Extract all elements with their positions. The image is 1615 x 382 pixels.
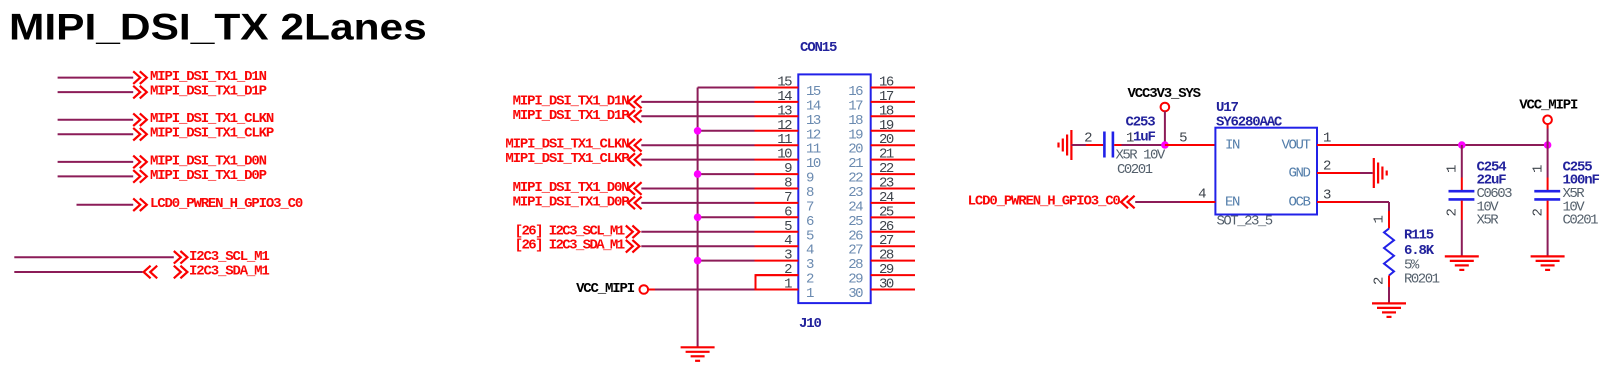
connector left pin 12 stub (755, 130, 799, 132)
pin number 6 (inside) (806, 214, 814, 230)
net label [26] I2C3_SCL_M1 at connector pin 5 (515, 223, 640, 239)
pin number 4 (inside) (806, 243, 814, 259)
C254 attribute X5R (1477, 213, 1500, 229)
R115 value 6.8K (1404, 243, 1435, 259)
pin number 17 (inside) (848, 98, 863, 114)
U17 OCB pin 3 stub and wire to R115 (1317, 202, 1389, 211)
pin number 11 (outside) (777, 132, 792, 148)
wire to port MIPI_DSI_TX1_D0N (58, 161, 134, 163)
pin number 15 (inside) (806, 84, 821, 100)
connector right pin 23 stub (871, 188, 915, 190)
svg-text:C0201: C0201 (1117, 162, 1153, 178)
svg-text:R115: R115 (1404, 228, 1434, 244)
svg-text:30: 30 (848, 286, 863, 302)
svg-text:2: 2 (1084, 131, 1092, 147)
ground symbol at U17 GND (1374, 158, 1387, 188)
pin number 17 (outside) (879, 89, 894, 105)
net label MIPI_DSI_TX1_CLKP at connector pin 10 (505, 151, 641, 167)
wire branch to pin 2 (756, 275, 799, 289)
pin number 7 (inside) (806, 199, 814, 215)
pin number 1 (inside) (806, 286, 814, 302)
pin number 2 of U17 (1323, 159, 1331, 175)
svg-text:I2C3_SDA_M1: I2C3_SDA_M1 (189, 264, 269, 280)
U17 GND pin 2 stub (1317, 172, 1373, 174)
pin number 13 (inside) (806, 113, 821, 129)
connector right pin 27 stub (871, 245, 915, 247)
op-amp U17 body SY6280AAC (1215, 128, 1317, 215)
wire to port I2C3_SDA_M1 (14, 271, 142, 273)
U17 pin name VOUT (1281, 138, 1310, 154)
pin number 28 (inside) (848, 257, 863, 273)
wire MIPI_DSI_TX1_D1P to pin 13 (641, 115, 754, 117)
connector right pin 20 stub (871, 144, 915, 146)
svg-text:2: 2 (1531, 209, 1547, 217)
connector left pin 6 stub (755, 216, 799, 218)
ground bus branch wire to pin 9 (698, 173, 755, 175)
pin number 6 (outside) (784, 204, 792, 220)
svg-text:1: 1 (1372, 216, 1388, 224)
wire node to U17 IN pin 5 (1165, 144, 1216, 146)
wire C254 to ground (1461, 201, 1463, 256)
capacitor C253 (1104, 132, 1113, 158)
svg-text:13: 13 (806, 113, 821, 129)
pin number 12 (inside) (806, 127, 821, 143)
svg-text:2: 2 (1372, 277, 1388, 285)
pin number 26 (outside) (879, 219, 894, 235)
wire C253 pin 1 to node (1114, 144, 1165, 146)
svg-text:I2C3_SCL_M1: I2C3_SCL_M1 (189, 249, 269, 265)
connector left pin 4 stub (755, 245, 799, 247)
ground bus branch wire to pin 15 (698, 87, 755, 89)
pin number 3 (outside) (784, 248, 792, 264)
pin number 30 (inside) (848, 286, 863, 302)
junction at ground bus pin 6 (694, 214, 702, 222)
pin number 4 of U17 (1198, 187, 1206, 203)
pin number 7 (outside) (784, 190, 792, 206)
U17 pin name IN (1225, 138, 1240, 154)
title MIPI_DSI_TX 2Lanes (9, 7, 427, 48)
C253 attributes X5R 10V (1116, 148, 1166, 164)
ground symbol left of C253 (1059, 130, 1072, 160)
connector right pin 26 stub (871, 231, 915, 233)
svg-text:MIPI_DSI_TX1_CLKP: MIPI_DSI_TX1_CLKP (505, 151, 629, 167)
pin number 25 (outside) (879, 204, 894, 220)
U17 pin name OCB (1288, 195, 1310, 211)
power symbol VCC_MIPI (middle) (576, 281, 648, 297)
svg-text:MIPI_DSI_TX1_D1P: MIPI_DSI_TX1_D1P (150, 84, 267, 100)
pin number 2 of R115 (1372, 277, 1388, 285)
wire to port MIPI_DSI_TX1_D1N (58, 77, 134, 79)
wire C255 to ground (1547, 201, 1549, 256)
connector reference designator J10 (799, 316, 821, 332)
svg-text:MIPI_DSI_TX1_D0P: MIPI_DSI_TX1_D0P (513, 194, 630, 210)
pin number 24 (outside) (879, 190, 894, 206)
svg-text:R0201: R0201 (1404, 272, 1440, 288)
pin number 14 (outside) (777, 89, 792, 105)
capacitor C255 (1534, 191, 1560, 199)
svg-text:2: 2 (806, 272, 814, 288)
pin number 11 (inside) (806, 142, 821, 158)
pin number 27 (outside) (879, 233, 894, 249)
wire to port I2C3_SCL_M1 (14, 256, 174, 258)
wire [26] I2C3_SDA_M1 to pin 4 (641, 245, 754, 247)
svg-text:MIPI_DSI_TX1_D0P: MIPI_DSI_TX1_D0P (150, 168, 267, 184)
ground bus vertical wire (697, 88, 699, 347)
pin number 22 (outside) (879, 161, 894, 177)
svg-text:6: 6 (784, 204, 792, 220)
pin number 2 of C254 (1445, 209, 1461, 217)
svg-text:VCC_MIPI: VCC_MIPI (1519, 97, 1578, 113)
pin number 2 (inside) (806, 272, 814, 288)
pin number 3 (inside) (806, 257, 814, 273)
port chevron and net label MIPI_DSI_TX1_D1P (133, 84, 266, 100)
svg-text:10: 10 (777, 147, 792, 163)
pin number 3 of U17 (1323, 188, 1331, 204)
connector left pin 15 stub (755, 87, 799, 89)
svg-text:VCC3V3_SYS: VCC3V3_SYS (1128, 86, 1201, 102)
pin number 30 (outside) (879, 277, 894, 293)
connector left pin 14 stub (755, 101, 799, 103)
svg-text:MIPI_DSI_TX1_CLKP: MIPI_DSI_TX1_CLKP (150, 126, 274, 142)
wire MIPI_DSI_TX1_D1N to pin 14 (641, 101, 754, 103)
pin number 9 (outside) (784, 161, 792, 177)
pin number 23 (outside) (879, 176, 894, 192)
svg-text:7: 7 (784, 190, 792, 206)
connector right pin 21 stub (871, 159, 915, 161)
svg-text:3: 3 (784, 248, 792, 264)
port chevron and net label MIPI_DSI_TX1_CLKN (133, 111, 274, 127)
pin number 18 (outside) (879, 103, 894, 119)
wire [26] I2C3_SCL_M1 to pin 5 (641, 231, 754, 233)
C253 attribute C0201 (1117, 162, 1153, 178)
svg-text:6: 6 (806, 214, 814, 230)
resistor R115 (1384, 211, 1394, 287)
C254 attribute 10V (1477, 199, 1500, 215)
svg-text:1: 1 (784, 277, 792, 293)
svg-text:VOUT: VOUT (1281, 138, 1310, 154)
svg-text:U17: U17 (1216, 100, 1238, 116)
svg-text:15: 15 (806, 84, 821, 100)
connector right pin 18 stub (871, 115, 915, 117)
svg-text:MIPI_DSI_TX1_D1P: MIPI_DSI_TX1_D1P (513, 108, 630, 124)
connector right pin 24 stub (871, 202, 915, 204)
svg-text:SY6280AAC: SY6280AAC (1216, 115, 1283, 131)
pin number 26 (inside) (848, 228, 863, 244)
svg-text:4: 4 (806, 243, 814, 259)
wire MIPI_DSI_TX1_CLKN to pin 11 (641, 144, 754, 146)
svg-text:IN: IN (1225, 138, 1240, 154)
R115 reference designator (1404, 228, 1434, 244)
pin number 1 (outside) (784, 277, 792, 293)
C255 attribute C0201 (1563, 213, 1599, 229)
pin number 9 (inside) (806, 171, 814, 187)
connector left pin 2 stub (755, 274, 799, 276)
pin number 28 (outside) (879, 248, 894, 264)
pin number 5 of U17 (1179, 131, 1187, 147)
svg-text:12: 12 (806, 127, 821, 143)
junction at IN node (1161, 141, 1169, 149)
connector right pin 19 stub (871, 130, 915, 132)
svg-text:VCC_MIPI: VCC_MIPI (576, 281, 635, 297)
svg-text:15: 15 (777, 75, 792, 91)
svg-text:4: 4 (784, 233, 792, 249)
svg-text:1: 1 (1531, 165, 1547, 173)
C255 value 100nF (1563, 173, 1600, 189)
input chevron on I2C3_SDA_M1 wire (144, 266, 158, 279)
wire to port MIPI_DSI_TX1_D0P (58, 175, 134, 177)
pin number 1 of R115 (1372, 216, 1388, 224)
pin number 5 (inside) (806, 228, 814, 244)
svg-text:5: 5 (806, 228, 814, 244)
C254 reference designator (1477, 160, 1507, 176)
C253 reference designator (1126, 115, 1156, 131)
wire VCC3V3_SYS down to node (1164, 111, 1166, 145)
wire rail down to C255 (1547, 145, 1549, 190)
svg-text:J10: J10 (799, 316, 821, 332)
pin number 21 (outside) (879, 147, 894, 163)
junction at ground bus pin 9 (694, 170, 702, 178)
pin number 16 (inside) (848, 84, 863, 100)
svg-text:[26] I2C3_SDA_M1: [26] I2C3_SDA_M1 (515, 238, 625, 254)
svg-text:8: 8 (806, 185, 814, 201)
connector value label CON15 (800, 40, 837, 56)
connector right pin 25 stub (871, 216, 915, 218)
port chevron and net label MIPI_DSI_TX1_D1N (133, 69, 266, 85)
pin number 29 (outside) (879, 262, 894, 278)
svg-text:12: 12 (777, 118, 792, 134)
junction at VCC_MIPI / C255 branch (1544, 141, 1552, 149)
connector left pin 11 stub (755, 144, 799, 146)
R115 attribute 5% (1404, 257, 1420, 273)
svg-text:C253: C253 (1126, 115, 1156, 131)
svg-text:X5R 10V: X5R 10V (1116, 148, 1166, 164)
connector right pin 17 stub (871, 101, 915, 103)
wire ground to C253 pin 2 (1071, 144, 1103, 146)
svg-text:3: 3 (1323, 188, 1331, 204)
pin number 16 (outside) (879, 75, 894, 91)
ground symbol under R115 (1372, 303, 1406, 317)
connector left pin 5 stub (755, 231, 799, 233)
svg-text:1uF: 1uF (1133, 130, 1155, 146)
port chevron and net label I2C3_SCL_M1 (174, 249, 270, 265)
svg-text:4: 4 (1198, 187, 1206, 203)
pin number 24 (inside) (848, 199, 863, 215)
pin number 2 (outside) (784, 262, 792, 278)
junction at C254 branch (1458, 141, 1466, 149)
net label MIPI_DSI_TX1_CLKN at connector pin 11 (505, 137, 641, 153)
wire VOUT rail down to C254 (1461, 145, 1463, 190)
svg-text:EN: EN (1225, 195, 1240, 211)
svg-text:9: 9 (806, 171, 814, 187)
pin number 8 (outside) (784, 176, 792, 192)
pin number 10 (outside) (777, 147, 792, 163)
net label MIPI_DSI_TX1_D1P at connector pin 13 (513, 108, 642, 124)
wire VOUT rail (1360, 144, 1548, 146)
pin number 29 (inside) (848, 272, 863, 288)
net label LCD0_PWREN_H_GPIO3_C0 (968, 194, 1135, 210)
wire LCD0_PWREN to U17 EN pin 4 (1135, 201, 1215, 203)
pin number 1 of C255 (1531, 165, 1547, 173)
svg-text:9: 9 (784, 161, 792, 177)
net label MIPI_DSI_TX1_D0P at connector pin 7 (513, 194, 642, 210)
capacitor C254 (1449, 191, 1475, 199)
pin number 25 (inside) (848, 214, 863, 230)
ground symbol under C254 (1445, 256, 1479, 270)
wire R115 to ground (1388, 287, 1390, 303)
svg-text:C0201: C0201 (1563, 213, 1599, 229)
wire MIPI_DSI_TX1_D0P to pin 7 (641, 202, 754, 204)
wire MIPI_DSI_TX1_D0N to pin 8 (641, 188, 754, 190)
pin number 13 (outside) (777, 103, 792, 119)
wire to port LCD0_PWREN_H_GPIO3_C0 (77, 204, 134, 206)
R115 attribute R0201 (1404, 272, 1440, 288)
ground symbol under C255 (1531, 256, 1565, 270)
svg-text:1: 1 (806, 286, 814, 302)
power symbol VCC3V3_SYS (1128, 86, 1201, 111)
connector right pin 30 stub (871, 289, 915, 291)
pin number 20 (inside) (848, 142, 863, 158)
svg-text:30: 30 (879, 277, 894, 293)
svg-text:LCD0_PWREN_H_GPIO3_C0: LCD0_PWREN_H_GPIO3_C0 (150, 196, 303, 212)
svg-text:1: 1 (1323, 131, 1331, 147)
port chevron and net label MIPI_DSI_TX1_D0P (133, 168, 266, 184)
connector right pin 28 stub (871, 260, 915, 262)
connector left pin 9 stub (755, 173, 799, 175)
pin number 5 (outside) (784, 219, 792, 235)
pin number 8 (inside) (806, 185, 814, 201)
svg-text:7: 7 (806, 199, 814, 215)
ground bus branch wire to pin 3 (698, 260, 755, 262)
ground bus branch wire to pin 6 (698, 216, 755, 218)
connector J10 body (CON15) (798, 74, 870, 303)
svg-text:MIPI_DSI_TX 2Lanes: MIPI_DSI_TX 2Lanes (9, 7, 427, 48)
wire VCC_MIPI to connector (648, 289, 754, 291)
svg-text:11: 11 (806, 142, 821, 158)
svg-text:1: 1 (1445, 165, 1461, 173)
pin number 1 of C253 (1126, 131, 1134, 147)
junction at ground bus pin 12 (694, 127, 702, 135)
wire to port MIPI_DSI_TX1_D1P (58, 91, 134, 93)
svg-text:14: 14 (806, 98, 821, 114)
pin number 1 of C254 (1445, 165, 1461, 173)
junction at ground bus pin 3 (694, 257, 702, 265)
port chevron and net label I2C3_SDA_M1 (174, 264, 270, 280)
connector left pin 13 stub (755, 115, 799, 117)
svg-text:8: 8 (784, 176, 792, 192)
connector right pin 29 stub (871, 274, 915, 276)
pin number 4 (outside) (784, 233, 792, 249)
wire to port MIPI_DSI_TX1_CLKN (58, 119, 134, 121)
C255 reference designator (1563, 160, 1593, 176)
net label MIPI_DSI_TX1_D0N at connector pin 8 (513, 180, 642, 196)
svg-text:13: 13 (777, 103, 792, 119)
power symbol VCC_MIPI (right) (1519, 97, 1578, 124)
pin number 2 of C253 (1084, 131, 1092, 147)
connector left pin 1 stub (755, 289, 799, 291)
pin number 12 (outside) (777, 118, 792, 134)
svg-text:10: 10 (806, 156, 821, 172)
svg-text:14: 14 (777, 89, 792, 105)
pin number 2 of C255 (1531, 209, 1547, 217)
C255 attribute 10V (1563, 199, 1586, 215)
U17 pin name GND (1288, 166, 1310, 182)
svg-text:2: 2 (1445, 209, 1461, 217)
pin number 22 (inside) (848, 171, 863, 187)
pin number 23 (inside) (848, 185, 863, 201)
svg-text:CON15: CON15 (800, 40, 837, 56)
svg-text:X5R: X5R (1477, 213, 1500, 229)
connector right pin 22 stub (871, 173, 915, 175)
net label MIPI_DSI_TX1_D1N at connector pin 14 (513, 93, 642, 109)
pin number 27 (inside) (848, 243, 863, 259)
C254 value 22uF (1477, 173, 1507, 189)
connector right pin 16 stub (871, 87, 915, 89)
U17 reference designator (1216, 100, 1238, 116)
svg-text:2: 2 (1323, 159, 1331, 175)
U17 pin name EN (1225, 195, 1240, 211)
pin number 19 (outside) (879, 118, 894, 134)
U17 footprint SOT_23_5 (1217, 214, 1273, 230)
wire to port MIPI_DSI_TX1_CLKP (58, 133, 134, 135)
ground bus branch wire to pin 12 (698, 130, 755, 132)
connector left pin 3 stub (755, 260, 799, 262)
svg-text:SOT_23_5: SOT_23_5 (1217, 214, 1273, 230)
svg-text:3: 3 (806, 257, 814, 273)
wire VCC_MIPI down to rail (1547, 124, 1549, 145)
ground symbol under connector (681, 347, 715, 361)
U17 part number SY6280AAC (1216, 115, 1283, 131)
connector left pin 7 stub (755, 202, 799, 204)
pin number 18 (inside) (848, 113, 863, 129)
pin number 15 (outside) (777, 75, 792, 91)
connector left pin 10 stub (755, 159, 799, 161)
pin number 21 (inside) (848, 156, 863, 172)
C255 attribute X5R (1563, 186, 1586, 202)
C253 value 1uF (1133, 130, 1155, 146)
U17 VOUT pin 1 stub (1317, 144, 1360, 146)
port chevron and net label LCD0_PWREN_H_GPIO3_C0 (133, 196, 303, 212)
connector left pin 8 stub (755, 188, 799, 190)
svg-text:11: 11 (777, 132, 792, 148)
svg-text:LCD0_PWREN_H_GPIO3_C0: LCD0_PWREN_H_GPIO3_C0 (968, 194, 1121, 210)
svg-text:5: 5 (1179, 131, 1187, 147)
pin number 1 of U17 (1323, 131, 1331, 147)
net label [26] I2C3_SDA_M1 at connector pin 4 (515, 238, 640, 254)
pin number 10 (inside) (806, 156, 821, 172)
port chevron and net label MIPI_DSI_TX1_D0N (133, 153, 266, 169)
port chevron and net label MIPI_DSI_TX1_CLKP (133, 126, 274, 142)
pin number 19 (inside) (848, 127, 863, 143)
wire MIPI_DSI_TX1_CLKP to pin 10 (641, 159, 754, 161)
pin number 20 (outside) (879, 132, 894, 148)
svg-text:5: 5 (784, 219, 792, 235)
pin number 14 (inside) (806, 98, 821, 114)
svg-text:GND: GND (1288, 166, 1310, 182)
svg-text:OCB: OCB (1288, 195, 1310, 211)
C254 attribute C0603 (1477, 186, 1513, 202)
